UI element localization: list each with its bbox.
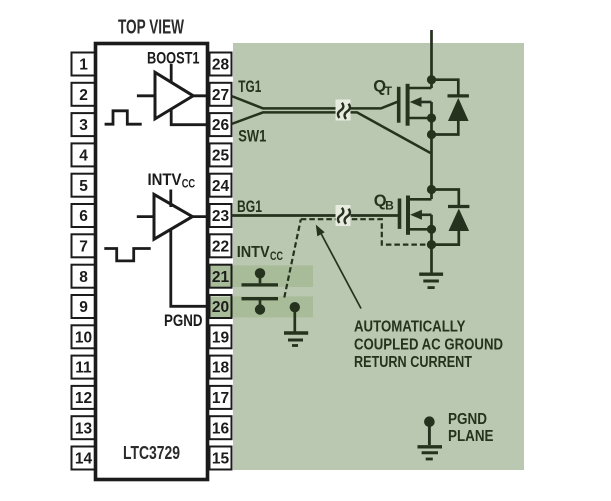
op-amp U1 top gate driver bbox=[137, 64, 193, 119]
pin 16 box bbox=[210, 416, 232, 439]
label INTVCC (driver supply) bbox=[148, 170, 196, 191]
wire switch node vertical bbox=[430, 102, 433, 199]
pin 23 box bbox=[210, 204, 232, 227]
label PGND PLANE bbox=[448, 411, 494, 445]
annotation text bbox=[354, 319, 503, 372]
pin 20 copper trace band bbox=[206, 296, 313, 317]
svg-text:2: 2 bbox=[79, 87, 88, 104]
transistor QB bottom MOSFET bbox=[400, 196, 432, 235]
pin 2 box bbox=[72, 83, 96, 106]
pin 26 box bbox=[210, 113, 232, 136]
svg-text:17: 17 bbox=[212, 390, 229, 407]
svg-text:TOP VIEW: TOP VIEW bbox=[118, 16, 184, 39]
PGND copper plane bbox=[233, 43, 524, 470]
svg-text:9: 9 bbox=[79, 299, 88, 316]
pin 14 box bbox=[72, 447, 96, 470]
svg-text:1: 1 bbox=[79, 57, 88, 74]
diode QT body diode bbox=[432, 80, 469, 135]
wire break symbol on TG1/SW1 pair bbox=[336, 100, 351, 121]
pin 10 box bbox=[72, 325, 96, 348]
wire dashed AC ground return path bbox=[284, 219, 427, 297]
svg-text:INTV: INTV bbox=[148, 170, 183, 189]
wire break symbol on BG1 pair bbox=[336, 205, 351, 226]
pin 19 box bbox=[210, 325, 232, 348]
pin 24 box bbox=[210, 174, 232, 197]
wire BG1 pin 23 to QB gate bbox=[232, 214, 400, 217]
wire VIN supply line bbox=[430, 30, 433, 88]
pin 3 box bbox=[72, 113, 96, 136]
svg-text:LTC3729: LTC3729 bbox=[123, 442, 180, 463]
svg-text:21: 21 bbox=[212, 269, 230, 286]
svg-text:12: 12 bbox=[75, 390, 92, 407]
svg-text:INTV: INTV bbox=[237, 244, 270, 261]
pin 20 box bbox=[210, 295, 232, 318]
node QT source junction bbox=[427, 113, 436, 122]
svg-text:15: 15 bbox=[212, 451, 230, 468]
svg-text:10: 10 bbox=[75, 329, 92, 346]
annotation arrow to dashed return bbox=[316, 225, 361, 309]
pin 11 box bbox=[72, 356, 96, 379]
node QB ground junction bbox=[427, 240, 436, 249]
svg-text:5: 5 bbox=[79, 178, 88, 195]
svg-text:18: 18 bbox=[212, 360, 230, 377]
svg-text:26: 26 bbox=[212, 117, 230, 134]
svg-text:CC: CC bbox=[270, 251, 283, 263]
svg-text:BG1: BG1 bbox=[237, 198, 262, 216]
pin 21 box bbox=[210, 265, 232, 288]
pin 27 box bbox=[210, 83, 232, 106]
wire driver2 ground to pin 20 (PGND) bbox=[171, 230, 210, 306]
ground symbol at QB source bbox=[419, 274, 443, 287]
label INTVCC at capacitor bbox=[237, 244, 283, 263]
pin 5 box bbox=[72, 174, 96, 197]
transistor QT top MOSFET bbox=[399, 84, 432, 126]
node QT diode return junction bbox=[427, 130, 436, 139]
pin 22 box bbox=[210, 234, 232, 257]
svg-text:25: 25 bbox=[212, 148, 230, 165]
svg-text:7: 7 bbox=[79, 238, 88, 255]
svg-text:11: 11 bbox=[75, 360, 92, 377]
pin 18 box bbox=[210, 356, 232, 379]
svg-text:23: 23 bbox=[212, 208, 230, 225]
svg-text:PGND: PGND bbox=[164, 312, 203, 330]
pin 12 box bbox=[72, 386, 96, 409]
pin 7 box bbox=[72, 234, 96, 257]
svg-text:28: 28 bbox=[212, 57, 230, 74]
svg-text:8: 8 bbox=[79, 269, 88, 286]
svg-text:COUPLED AC GROUND: COUPLED AC GROUND bbox=[354, 336, 503, 353]
pin 25 box bbox=[210, 143, 232, 166]
svg-text:16: 16 bbox=[212, 420, 230, 437]
diode QB body diode bbox=[432, 190, 470, 245]
IC body LTC3729 bbox=[96, 44, 208, 480]
label QB bbox=[374, 192, 394, 213]
svg-text:22: 22 bbox=[212, 238, 229, 255]
pin 17 box bbox=[210, 386, 232, 409]
svg-text:T: T bbox=[385, 84, 393, 98]
pin 6 box bbox=[72, 204, 96, 227]
svg-text:B: B bbox=[385, 199, 394, 213]
node QB drain junction bbox=[427, 185, 436, 194]
wire driver2 output to pin 23 bbox=[191, 215, 209, 218]
node QT drain junction bbox=[427, 75, 436, 84]
pin 4 box bbox=[72, 143, 96, 166]
pin 8 box bbox=[72, 265, 96, 288]
capacitor C1 INTVCC decoupling bbox=[242, 268, 279, 315]
wire driver1 output to pin 27 bbox=[192, 94, 210, 97]
ground via on pin 20 trace bbox=[284, 302, 308, 346]
op-amp U2 bottom gate driver bbox=[137, 190, 193, 240]
svg-text:SW1: SW1 bbox=[238, 128, 266, 146]
svg-text:19: 19 bbox=[212, 329, 230, 346]
wire SW1 pin 26 to switch node bbox=[232, 112, 431, 153]
svg-text:14: 14 bbox=[75, 451, 93, 468]
pin 28 box bbox=[210, 53, 232, 76]
ground symbol PGND plane bbox=[418, 416, 443, 459]
svg-text:TG1: TG1 bbox=[238, 78, 261, 96]
pin 9 box bbox=[72, 295, 96, 318]
waveform pulse at pin 7 bbox=[104, 249, 150, 261]
svg-text:20: 20 bbox=[212, 299, 229, 316]
svg-text:CC: CC bbox=[182, 177, 196, 191]
pin 1 box bbox=[72, 53, 96, 76]
pin 21 copper trace band bbox=[206, 265, 313, 287]
wire TG1 pin 27 to QT gate bbox=[232, 96, 399, 108]
svg-text:AUTOMATICALLY: AUTOMATICALLY bbox=[354, 319, 466, 336]
svg-text:PGND: PGND bbox=[448, 411, 487, 428]
svg-text:24: 24 bbox=[212, 178, 230, 195]
svg-text:4: 4 bbox=[79, 148, 88, 165]
pin 15 box bbox=[210, 447, 232, 470]
node QB source junction bbox=[427, 225, 436, 234]
wire driver1 bottom to pin 26 (SW1) bbox=[171, 110, 209, 125]
svg-text:BOOST1: BOOST1 bbox=[147, 49, 200, 68]
svg-text:RETURN CURRENT: RETURN CURRENT bbox=[354, 354, 472, 371]
svg-text:3: 3 bbox=[79, 117, 88, 134]
svg-text:27: 27 bbox=[212, 87, 229, 104]
pin 13 box bbox=[72, 416, 96, 439]
label QT bbox=[373, 78, 392, 99]
waveform pulse at pin 3 bbox=[105, 111, 142, 124]
svg-text:13: 13 bbox=[75, 420, 93, 437]
wire QB source to ground bbox=[430, 215, 433, 273]
svg-text:PLANE: PLANE bbox=[448, 428, 494, 445]
svg-text:6: 6 bbox=[79, 208, 88, 225]
